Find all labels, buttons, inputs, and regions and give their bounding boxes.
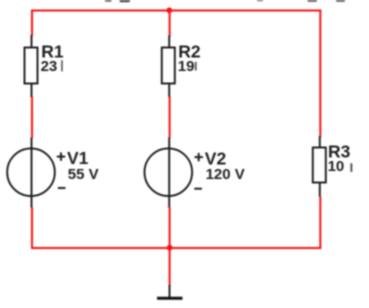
top edge text remnant 1: [105, 0, 112, 2]
wire left branch R1 bottom lead: [31, 84, 33, 98]
voltage source V1 minus sign: [58, 187, 66, 189]
node top junction: [166, 7, 172, 13]
resistor R3: [313, 148, 326, 183]
svg-text:23: 23: [41, 58, 58, 75]
svg-text:55 V: 55 V: [68, 166, 99, 183]
wire left branch R1 top lead: [31, 35, 33, 48]
wire middle branch R2 bottom lead: [168, 84, 170, 98]
wire bottom rail: [31, 247, 321, 249]
wire middle branch lower red: [169, 207, 171, 249]
wire top rail: [31, 10, 321, 12]
voltage source V2 minus sign: [194, 188, 202, 190]
svg-text:V1: V1: [67, 148, 89, 168]
voltage source V1: [7, 148, 55, 196]
wire middle branch upper red: [169, 11, 171, 37]
top edge text remnant 3: [257, 0, 263, 1]
wire left branch middle red: [31, 97, 33, 139]
voltage source V1 plus sign: [57, 156, 65, 158]
wire middle branch R2 top lead: [168, 36, 170, 49]
wire right branch R3 top lead: [319, 136, 321, 148]
resistor R1: [25, 48, 38, 84]
top edge text remnant 5: [336, 0, 345, 2]
wire right branch upper red: [319, 10, 321, 138]
ground: [169, 285, 171, 298]
resistor R3 value cursor bar: [350, 163, 352, 172]
resistor R2: [162, 48, 175, 84]
wire left branch V1 through line: [31, 138, 33, 209]
wire left branch upper red: [31, 10, 33, 37]
wire right branch R3 bottom lead: [319, 183, 321, 198]
resistor R1 value cursor bar: [61, 60, 63, 71]
node bottom junction: [167, 245, 173, 251]
voltage source V2: [145, 148, 193, 196]
wire right branch lower red: [319, 196, 321, 249]
wire middle branch V2 through line: [168, 138, 170, 209]
resistor R2 value cursor bar: [195, 62, 197, 71]
top edge text remnant 2: [120, 0, 131, 2]
svg-text:19: 19: [178, 58, 195, 75]
wire middle branch middle red: [169, 97, 171, 139]
wire left branch lower red: [31, 207, 33, 249]
wire ground branch red: [169, 248, 171, 286]
top edge text remnant 4: [308, 0, 318, 2]
svg-text:120 V: 120 V: [206, 166, 245, 183]
voltage source V2 plus sign: [195, 156, 203, 158]
svg-text:10: 10: [328, 158, 345, 175]
